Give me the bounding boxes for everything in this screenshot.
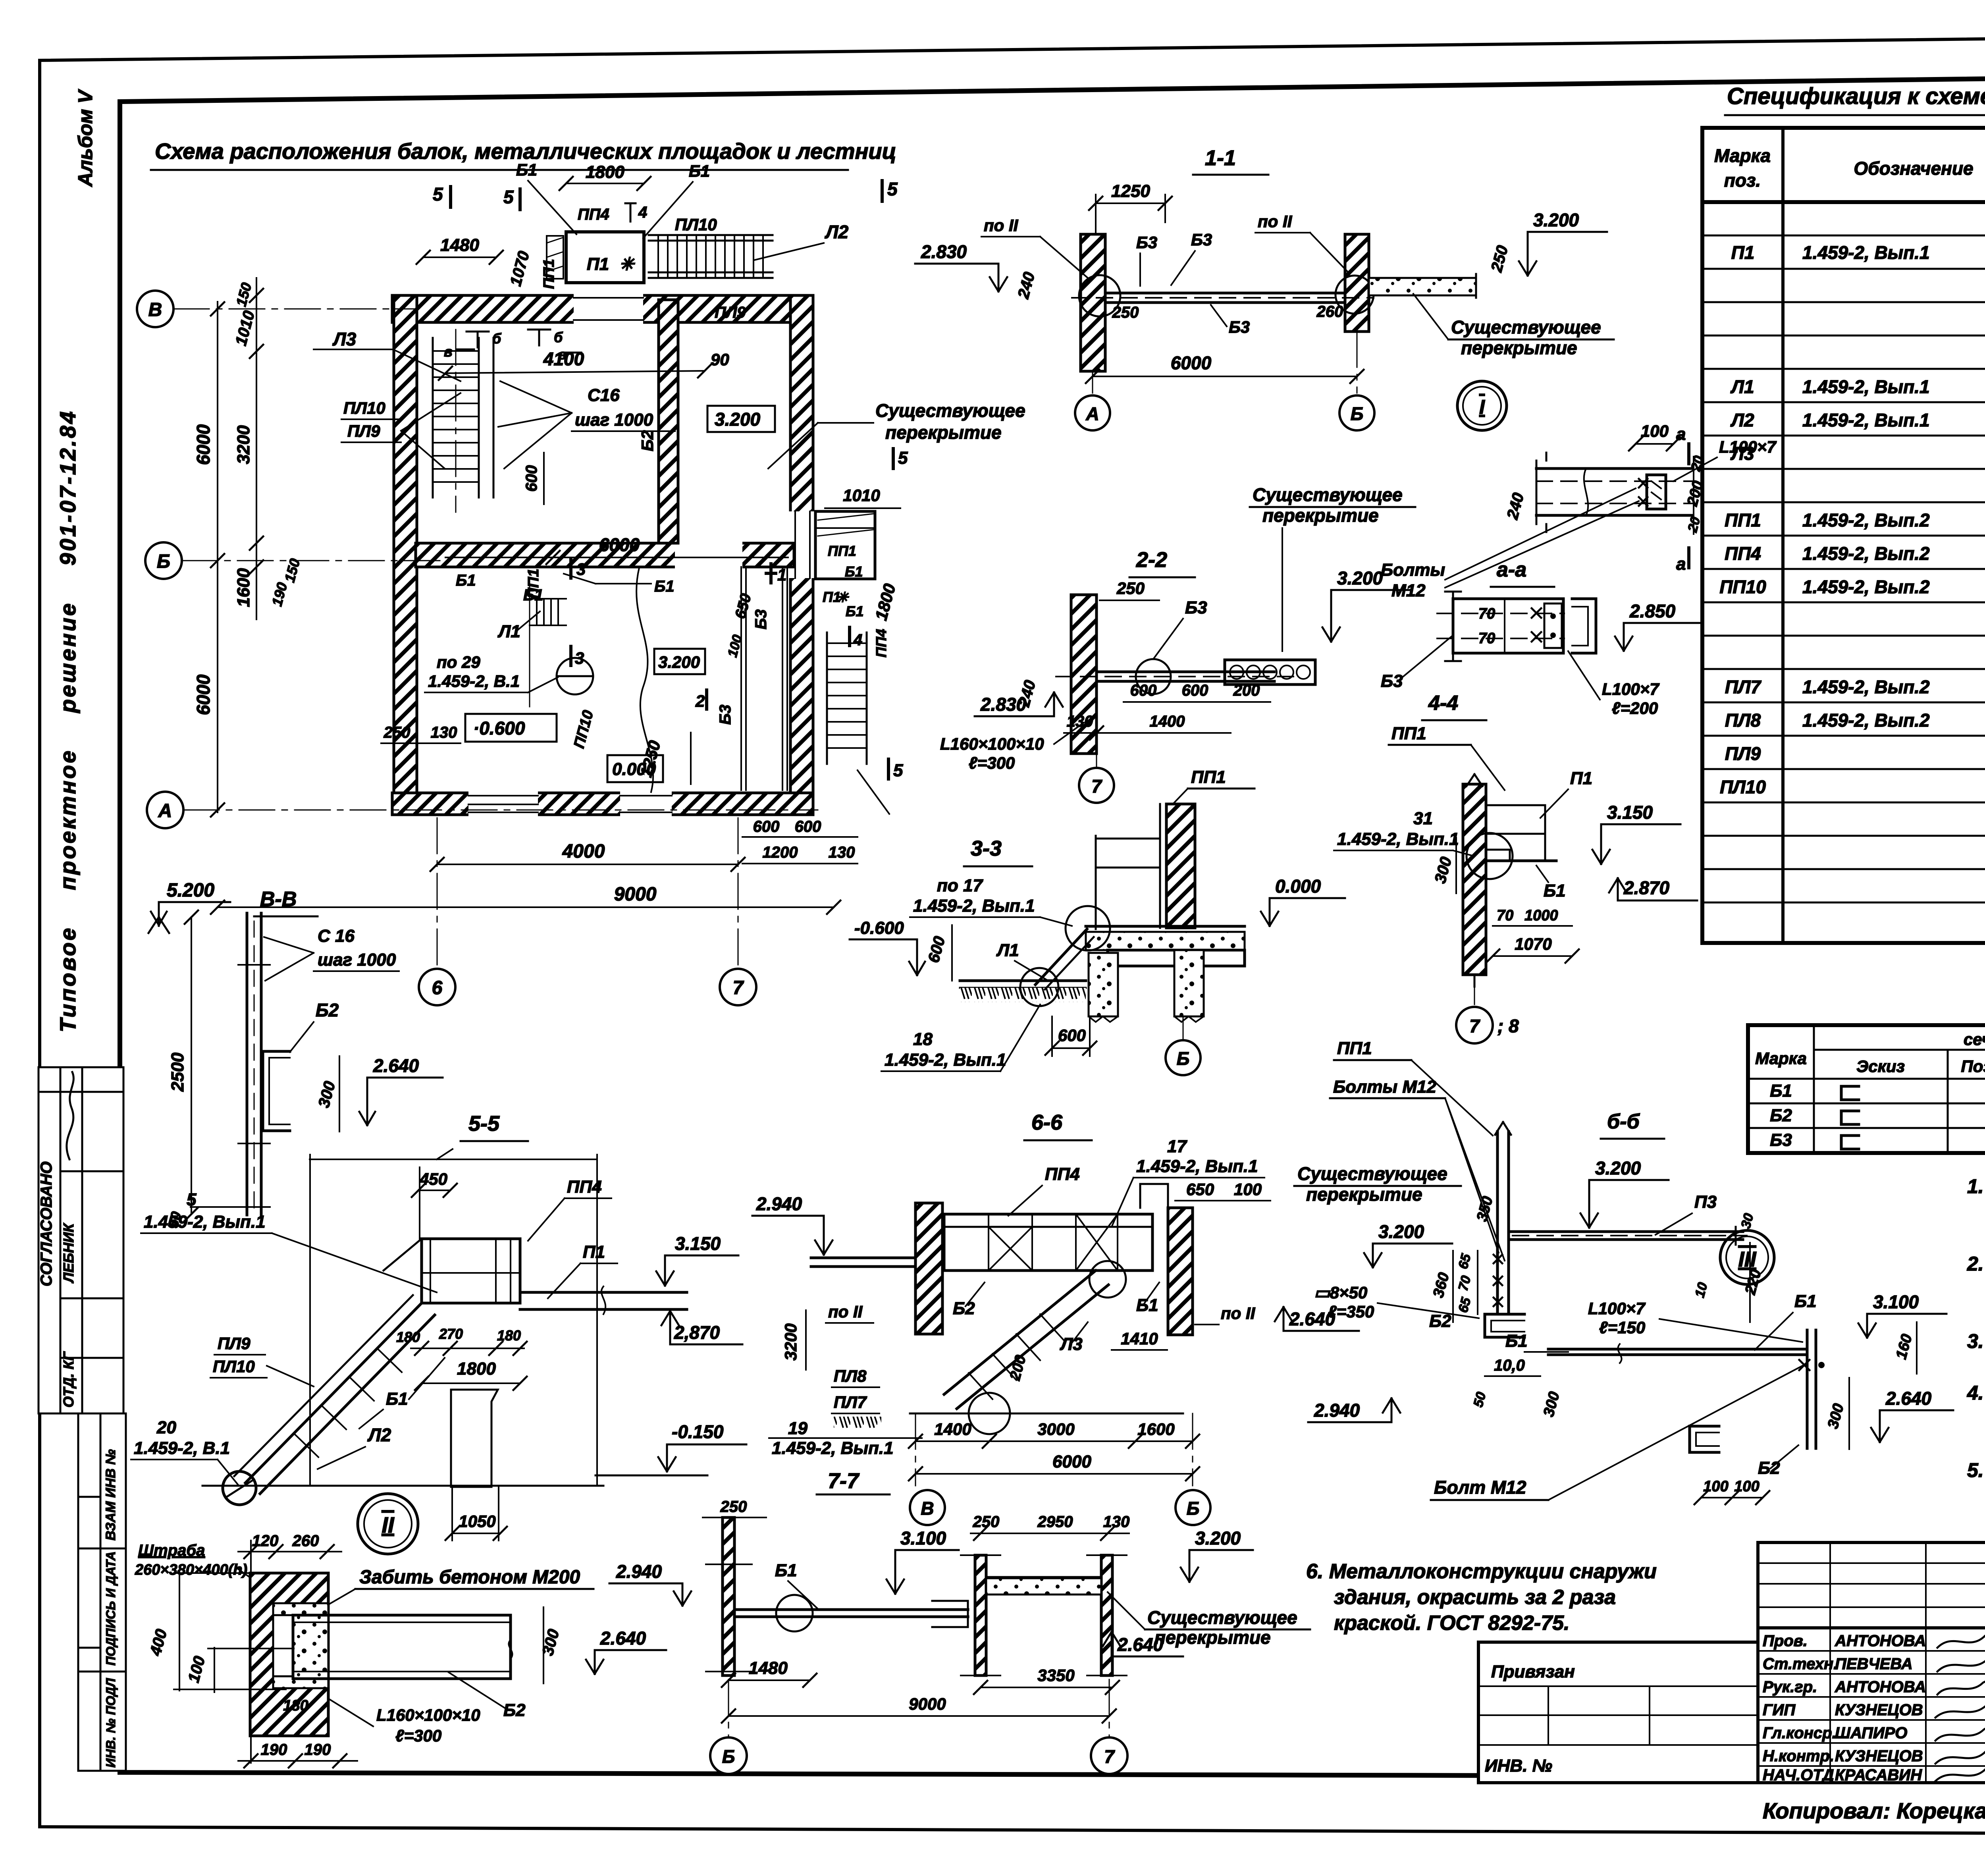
- svg-text:180: 180: [283, 1697, 308, 1714]
- right appendix platform: [815, 511, 875, 579]
- svg-text:Пров.: Пров.: [1763, 1632, 1808, 1650]
- svg-text:2: 2: [695, 692, 705, 710]
- boxed level 0.000: [607, 755, 663, 782]
- svg-text:б: б: [492, 330, 502, 347]
- svg-text:Б2: Б2: [1758, 1458, 1780, 1478]
- signatures squiggles: [1935, 1630, 1985, 1781]
- svg-text:1: 1: [777, 565, 786, 584]
- svg-text:по II: по II: [828, 1302, 863, 1321]
- svg-text:260×380×400(h): 260×380×400(h): [135, 1562, 247, 1578]
- post member: [246, 913, 249, 1215]
- door gap in bottom wall: [468, 790, 538, 817]
- svg-text:П1: П1: [583, 1242, 605, 1262]
- stair diagonal: [944, 1271, 1096, 1394]
- svg-text:Б1: Б1: [654, 578, 675, 595]
- sections table rows: [1770, 1081, 1985, 1150]
- svg-text:НАЧ.ОТД: НАЧ.ОТД: [1763, 1766, 1834, 1784]
- svg-text:П1: П1: [587, 255, 609, 274]
- svg-text:Существующее: Существующее: [1451, 317, 1601, 337]
- wavy break line through lower room: [636, 568, 653, 792]
- svg-text:Б: Б: [1177, 1048, 1190, 1069]
- svg-text:100: 100: [1234, 1180, 1262, 1199]
- spec table body text: [1719, 210, 1985, 797]
- sidebar signature squiggle: [67, 1072, 74, 1159]
- svg-text:260: 260: [292, 1532, 319, 1550]
- svg-text:2.640: 2.640: [1885, 1388, 1932, 1409]
- platform box: [422, 1239, 520, 1303]
- svg-text:3.100: 3.100: [900, 1528, 946, 1548]
- dim 450: [418, 1190, 450, 1191]
- svg-text:100: 100: [1734, 1478, 1759, 1495]
- channel right: [1572, 599, 1596, 653]
- boxed level 3.200 middle: [654, 649, 705, 674]
- svg-text:17: 17: [1167, 1137, 1187, 1156]
- note 6 (bottom middle): [1306, 1560, 1657, 1635]
- svg-text:600: 600: [1130, 682, 1157, 699]
- svg-text:ПЛ10: ПЛ10: [675, 215, 717, 234]
- bottom dim 4000: [437, 864, 738, 865]
- svg-text:Существующее: Существующее: [1253, 484, 1403, 505]
- svg-text:1010: 1010: [843, 486, 880, 505]
- left wall: [1081, 234, 1105, 371]
- svg-text:3.200: 3.200: [1533, 210, 1579, 230]
- svg-text:130: 130: [1067, 713, 1093, 730]
- dims 100 100: [1701, 1497, 1763, 1498]
- spec table row lines: [1702, 235, 1985, 902]
- grid axis 6 vertical: [437, 818, 438, 967]
- svg-text:18: 18: [913, 1030, 933, 1049]
- right ladder rails: [826, 632, 828, 764]
- beams horizontal: [1536, 467, 1692, 470]
- connection plate: [1544, 603, 1562, 648]
- svg-text:сечение: сечение: [1964, 1030, 1985, 1049]
- svg-text:2.640: 2.640: [1117, 1634, 1164, 1655]
- svg-text:1.459-2, Вып.1: 1.459-2, Вып.1: [1136, 1157, 1258, 1176]
- svg-text:Болты М12: Болты М12: [1333, 1077, 1436, 1097]
- beam at level 2.940: [811, 1257, 913, 1259]
- svg-text:1.459-2, В.1: 1.459-2, В.1: [134, 1438, 230, 1458]
- svg-text:перекрытие: перекрытие: [885, 422, 1002, 443]
- svg-text:3: 3: [576, 560, 586, 578]
- svg-text:1400: 1400: [1150, 713, 1185, 730]
- svg-text:1.459-2, В.1: 1.459-2, В.1: [428, 672, 520, 690]
- svg-text:1410: 1410: [1121, 1329, 1158, 1348]
- svg-text:В: В: [148, 299, 162, 320]
- svg-text:ПП1: ПП1: [1191, 767, 1226, 787]
- svg-text:1.459-2, Вып.1: 1.459-2, Вып.1: [885, 1050, 1006, 1070]
- svg-text:Б2: Б2: [953, 1299, 975, 1318]
- svg-text:1480: 1480: [749, 1658, 788, 1678]
- svg-text:3.200: 3.200: [1337, 568, 1383, 588]
- svg-text:поз.: поз.: [1724, 170, 1761, 191]
- svg-text:краской. ГОСТ 8292-75.: краской. ГОСТ 8292-75.: [1334, 1612, 1569, 1635]
- svg-text:Типовое проектное решение 9: Типовое проектное решение 901-07-12.84: [55, 409, 80, 1032]
- beam: [1509, 1230, 1743, 1233]
- svg-text:П1: П1: [1731, 242, 1755, 263]
- svg-text:90: 90: [711, 350, 729, 369]
- niche in wall (white): [273, 1603, 328, 1688]
- svg-text:1200: 1200: [763, 844, 798, 861]
- interior vertical wall: [659, 300, 678, 543]
- svg-text:ПП4: ПП4: [1045, 1165, 1080, 1184]
- bolt crosses: [1532, 608, 1541, 642]
- svg-text:7: 7: [1104, 1746, 1115, 1767]
- svg-text:5: 5: [898, 448, 908, 468]
- svg-text:2.640: 2.640: [373, 1055, 419, 1076]
- svg-text:650: 650: [1186, 1180, 1214, 1199]
- svg-text:Болты: Болты: [1381, 560, 1445, 580]
- svg-text:7-7: 7-7: [828, 1469, 860, 1493]
- svg-text:Б2: Б2: [316, 1000, 339, 1020]
- svg-text:1.459-2, Вып.2: 1.459-2, Вып.2: [1802, 510, 1930, 530]
- svg-text:Б3: Б3: [1381, 671, 1403, 691]
- railing ПП1 beside platform: [547, 236, 563, 279]
- stair Л3 dash-dot centre: [455, 330, 457, 512]
- door gap in top wall: [574, 293, 643, 325]
- svg-text:П3: П3: [1694, 1192, 1717, 1212]
- stair diagonal rails: [245, 1303, 422, 1483]
- svg-text:4. Металлоконструкции в осях: 4. Металлоконструкции в осях „А-Б" окрас…: [1967, 1382, 1985, 1404]
- svg-text:ПП10: ПП10: [1719, 576, 1766, 597]
- svg-text:1.459-2, Вып.2: 1.459-2, Вып.2: [1802, 543, 1930, 564]
- svg-text:3000: 3000: [1037, 1420, 1074, 1438]
- svg-text:70: 70: [1478, 630, 1495, 647]
- top platform П1: [566, 232, 644, 283]
- roles and names: [1763, 1632, 1926, 1784]
- svg-text:Б3: Б3: [1770, 1130, 1792, 1150]
- grid circle 7: [1096, 754, 1097, 767]
- svg-text:L160×100×10: L160×100×10: [376, 1706, 480, 1724]
- grid circle Б: [728, 1679, 729, 1736]
- svg-text:ПЛ9: ПЛ9: [347, 422, 380, 440]
- svg-text:Б: Б: [1351, 403, 1364, 424]
- left floor slab lower: [960, 979, 1086, 982]
- svg-text:ℓ=300: ℓ=300: [969, 754, 1015, 772]
- beam: [1105, 292, 1345, 295]
- svg-text:ПП1: ПП1: [525, 569, 542, 599]
- svg-text:6000: 6000: [193, 674, 214, 715]
- svg-text:АНТОНОВА: АНТОНОВА: [1835, 1632, 1926, 1650]
- rails: [1096, 838, 1160, 840]
- dim 4100: [445, 371, 705, 373]
- wall left band: [394, 295, 417, 815]
- svg-text:1.459-2, Вып.1: 1.459-2, Вып.1: [1337, 829, 1459, 849]
- svg-text:3200: 3200: [234, 425, 253, 464]
- svg-text:6. Металлоконструкции снаружи: 6. Металлоконструкции снаружи: [1306, 1560, 1657, 1583]
- svg-text:Л3: Л3: [332, 329, 357, 349]
- svg-text:190: 190: [304, 1741, 331, 1758]
- svg-text:1.459-2, Вып.1: 1.459-2, Вып.1: [1802, 376, 1930, 397]
- svg-text:ПЛ7: ПЛ7: [1725, 677, 1762, 697]
- gap in right wall at platform: [788, 511, 815, 578]
- svg-text:П1: П1: [1570, 769, 1592, 788]
- svg-text:1.459-2, Вып.1: 1.459-2, Вып.1: [913, 896, 1035, 916]
- floor beams to the right: [520, 1291, 687, 1294]
- svg-text:70: 70: [1497, 907, 1513, 924]
- svg-text:9000: 9000: [614, 884, 657, 905]
- wall bottom band: [392, 793, 813, 815]
- svg-text:Б3: Б3: [1191, 230, 1212, 249]
- svg-text:190: 190: [261, 1741, 287, 1758]
- svg-text:1600: 1600: [1137, 1420, 1174, 1438]
- svg-text:по 29: по 29: [437, 653, 480, 671]
- svg-text:2.940: 2.940: [1314, 1400, 1360, 1421]
- svg-text:Б2: Б2: [1429, 1311, 1451, 1331]
- svg-text:3.200: 3.200: [715, 409, 761, 430]
- svg-text:5: 5: [893, 761, 903, 780]
- svg-text:✳: ✳: [619, 255, 635, 274]
- bottom floor line: [910, 1413, 1183, 1415]
- С16 T-marks in room: [466, 330, 550, 347]
- svg-text:Обозначение: Обозначение: [1854, 158, 1973, 179]
- dims 180 270 180: [411, 1348, 524, 1349]
- svg-text:Л2: Л2: [1730, 410, 1754, 430]
- dim 1800 top: [566, 183, 644, 184]
- svg-text:Существующее: Существующее: [1297, 1163, 1447, 1184]
- top stair Л2 rails: [649, 234, 773, 236]
- svg-text:ℓ=300: ℓ=300: [395, 1726, 441, 1745]
- node II double circle: [358, 1494, 418, 1554]
- svg-text:600: 600: [523, 465, 540, 492]
- svg-text:по II: по II: [984, 216, 1019, 235]
- bottom dims 600 600 / 1200 130: [742, 836, 858, 838]
- svg-text:6: 6: [432, 978, 443, 999]
- svg-text:▭8×50: ▭8×50: [1314, 1283, 1367, 1302]
- top stair Л2 rungs: [658, 235, 763, 278]
- wall top band: [392, 295, 813, 322]
- svg-text:Б1: Б1: [516, 160, 537, 179]
- grid circles А Б: [1075, 395, 1110, 430]
- svg-text:Существующее: Существующее: [875, 400, 1025, 421]
- svg-text:5: 5: [187, 1190, 197, 1209]
- svg-text:4: 4: [853, 631, 862, 649]
- svg-text:2,870: 2,870: [674, 1322, 720, 1343]
- left dim chain inner: [256, 278, 257, 619]
- post: [1496, 1132, 1499, 1314]
- svg-text:260: 260: [1316, 303, 1343, 320]
- svg-text:2500: 2500: [168, 1053, 187, 1092]
- svg-text:Привязан: Привязан: [1491, 1662, 1575, 1681]
- svg-text:перекрытие: перекрытие: [1461, 337, 1577, 358]
- svg-text:ИНВ. №: ИНВ. №: [1485, 1756, 1552, 1776]
- svg-text:В-В: В-В: [260, 888, 297, 911]
- node I double circle: [1457, 381, 1507, 430]
- svg-text:1600: 1600: [234, 568, 253, 607]
- svg-text:ПЛ10: ПЛ10: [1720, 777, 1766, 797]
- svg-text:250: 250: [384, 724, 410, 741]
- svg-text:Альбом V: Альбом V: [74, 89, 96, 187]
- svg-text:600: 600: [795, 818, 821, 835]
- dim 2500 rot: [191, 917, 192, 1214]
- left wall: [915, 1203, 942, 1334]
- node III double circle: [1720, 1230, 1774, 1284]
- svg-text:здания, окрасить за 2 раза: здания, окрасить за 2 раза: [1334, 1586, 1616, 1609]
- stair top chamfer: [384, 1239, 422, 1271]
- bottom channel: [1485, 1314, 1524, 1337]
- dim 3350: [981, 1687, 1112, 1688]
- svg-text:1. В спецификации в графе „Кол: 1. В спецификации в графе „Количество" д…: [1967, 1175, 1985, 1197]
- svg-text:1-1: 1-1: [1205, 146, 1236, 170]
- svg-text:600: 600: [753, 818, 780, 835]
- svg-text:3200: 3200: [781, 1323, 800, 1360]
- bolt on beam: [1799, 1360, 1810, 1370]
- svg-text:по II: по II: [1258, 212, 1293, 231]
- platform frame: [1486, 804, 1545, 806]
- svg-text:ПОДПИСЬ И ДАТА: ПОДПИСЬ И ДАТА: [104, 1551, 118, 1666]
- svg-text:Штраба: Штраба: [138, 1542, 205, 1559]
- grid axis А: [183, 810, 818, 811]
- svg-text:1.459-2, Вып.1: 1.459-2, Вып.1: [772, 1438, 894, 1458]
- svg-text:шаг 1000: шаг 1000: [318, 950, 396, 970]
- svg-text:в: в: [444, 343, 453, 360]
- grid axis Б: [182, 560, 441, 561]
- svg-text:130: 130: [431, 724, 457, 741]
- svg-text:ℓ=150: ℓ=150: [1599, 1318, 1645, 1337]
- svg-text:Гл.конср.: Гл.конср.: [1763, 1724, 1837, 1742]
- svg-text:L100×7: L100×7: [1588, 1299, 1646, 1318]
- svg-text:Б1: Б1: [845, 563, 863, 580]
- dim 1050: [452, 1533, 500, 1534]
- svg-text:ШАПИРО: ШАПИРО: [1835, 1724, 1907, 1742]
- svg-text:3.100: 3.100: [1873, 1292, 1919, 1312]
- svg-text:2. Схема расположения балок, п: 2. Схема расположения балок, площадок и: [1967, 1253, 1985, 1275]
- dim 1800: [422, 1382, 520, 1384]
- wall band: [1463, 784, 1486, 975]
- svg-text:Б1: Б1: [846, 603, 864, 619]
- svg-text:200: 200: [1233, 682, 1260, 699]
- svg-text:6000: 6000: [1052, 1452, 1091, 1471]
- dims 1400 3000 1600: [915, 1440, 1193, 1442]
- svg-text:ПЛ9: ПЛ9: [218, 1334, 251, 1353]
- svg-text:А: А: [158, 800, 172, 821]
- svg-text:II: II: [382, 1512, 395, 1537]
- bolts below: [1494, 1255, 1502, 1306]
- stair Л3 rails: [432, 338, 434, 497]
- svg-text:20: 20: [156, 1418, 176, 1437]
- svg-text:130: 130: [1103, 1513, 1130, 1531]
- svg-text:КУЗНЕЦОВ: КУЗНЕЦОВ: [1835, 1701, 1923, 1719]
- svg-text:100: 100: [1641, 422, 1669, 440]
- dim 9000: [728, 1715, 1109, 1717]
- svg-text:Б3: Б3: [1185, 598, 1207, 617]
- foundations: [1089, 953, 1118, 1016]
- svg-text:1.459-2, Вып.1: 1.459-2, Вып.1: [144, 1212, 266, 1232]
- svg-text:5. Антикоррозионную защиту ме: 5. Антикоррозионную защиту металлоконстр…: [1967, 1459, 1985, 1481]
- channel Б2 profile: [263, 1051, 290, 1131]
- svg-text:Б1: Б1: [386, 1389, 408, 1409]
- grid circle 7: [1109, 1679, 1110, 1736]
- svg-text:600: 600: [1058, 1026, 1086, 1045]
- svg-text:2.940: 2.940: [756, 1193, 802, 1214]
- right ladder rungs: [827, 643, 867, 748]
- svg-text:С16: С16: [588, 386, 620, 405]
- svg-text:70: 70: [1478, 605, 1495, 622]
- svg-text:Эскиз: Эскиз: [1856, 1057, 1905, 1076]
- dim 6000: [915, 1473, 1193, 1475]
- svg-text:шаг 1000: шаг 1000: [575, 410, 653, 430]
- right wall: [1345, 234, 1369, 332]
- svg-text:Б3: Б3: [1136, 233, 1157, 252]
- svg-text:Л1: Л1: [996, 941, 1019, 960]
- svg-text:3.150: 3.150: [1607, 802, 1653, 823]
- right wall with step: [1168, 1208, 1193, 1335]
- sidebar table A (СОГЛАСОВАНО): [39, 1067, 123, 1413]
- junction circles: [969, 1393, 1010, 1434]
- sections table header text: [1755, 1030, 1985, 1080]
- svg-text:Б: Б: [1187, 1498, 1200, 1519]
- label Л2 bottom right leader: [858, 770, 889, 814]
- svg-text:4-4: 4-4: [1428, 692, 1458, 715]
- dim 100: [1636, 443, 1673, 445]
- svg-text:Ст.техн.: Ст.техн.: [1763, 1655, 1838, 1673]
- svg-text:Б1: Б1: [775, 1561, 797, 1580]
- svg-text:5: 5: [887, 179, 898, 199]
- svg-text:3.200: 3.200: [658, 653, 700, 671]
- svg-text:ПП4: ПП4: [873, 629, 889, 657]
- sidebar table B (inv/podp): [78, 1413, 126, 1771]
- svg-text:ПП1: ПП1: [541, 259, 557, 289]
- svg-text:ПП1: ПП1: [1391, 724, 1426, 743]
- axis to circle 7: [1474, 981, 1475, 1005]
- svg-text:Поз.: Поз.: [1961, 1057, 1985, 1076]
- svg-text:Болт М12: Болт М12: [1434, 1477, 1526, 1498]
- svg-text:Б: Б: [157, 551, 170, 572]
- svg-text:6000: 6000: [599, 534, 640, 555]
- small privyazan table: [1478, 1642, 1758, 1783]
- svg-text:7: 7: [733, 978, 744, 999]
- top dim line: [310, 1159, 597, 1160]
- svg-text:31: 31: [1413, 809, 1433, 828]
- svg-text:ПП1: ПП1: [1337, 1039, 1372, 1058]
- svg-text:4000: 4000: [562, 841, 605, 862]
- svg-text:450: 450: [419, 1170, 447, 1188]
- svg-text:5: 5: [503, 187, 514, 207]
- svg-text:Б: Б: [722, 1746, 735, 1767]
- svg-text:Существующее: Существующее: [1147, 1607, 1297, 1628]
- svg-text:в: в: [558, 346, 567, 362]
- svg-text:2-2: 2-2: [1136, 548, 1167, 572]
- dim 250: [1100, 600, 1159, 601]
- svg-text:перекрытие: перекрытие: [1306, 1184, 1422, 1205]
- svg-text:1.459-2, Вып.2: 1.459-2, Вып.2: [1802, 710, 1930, 731]
- svg-text:Б2: Б2: [503, 1701, 526, 1720]
- svg-text:0.000: 0.000: [1275, 876, 1321, 897]
- dim 1250: [1096, 202, 1165, 204]
- svg-text:Н.контр.: Н.контр.: [1763, 1747, 1834, 1765]
- svg-text:5-5: 5-5: [468, 1112, 500, 1136]
- junction circle: [1066, 906, 1110, 951]
- end plate: [1647, 475, 1666, 509]
- dims 600 600 200: [1124, 701, 1270, 703]
- svg-text:2.640: 2.640: [1289, 1309, 1336, 1329]
- verticals: [309, 1155, 311, 1485]
- svg-text:Копировал: Корецкая: Копировал: Корецкая: [1763, 1798, 1985, 1823]
- svg-text:1800: 1800: [457, 1359, 496, 1379]
- wall: [1071, 595, 1097, 754]
- dims 190 190: [238, 1760, 357, 1762]
- svg-text:б: б: [554, 329, 563, 345]
- svg-text:6000: 6000: [1171, 353, 1212, 373]
- slab between: [986, 1576, 1101, 1579]
- svg-text:2.870: 2.870: [1623, 877, 1670, 898]
- svg-text:б-б: б-б: [1607, 1110, 1640, 1133]
- left dim chain outer: [217, 302, 218, 812]
- svg-text:6-6: 6-6: [1031, 1111, 1063, 1134]
- svg-text:Б3: Б3: [717, 705, 734, 725]
- svg-text:2950: 2950: [1037, 1513, 1073, 1531]
- dim 6000 inside: [445, 557, 788, 558]
- svg-text:2.940: 2.940: [616, 1561, 662, 1582]
